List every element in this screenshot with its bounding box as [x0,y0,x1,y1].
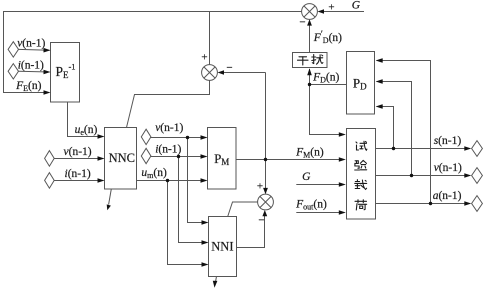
svg-text:FM(n): FM(n) [295,147,324,160]
svg-text:G: G [352,0,361,11]
svg-text:um(n): um(n) [141,167,167,180]
svg-text:FD(n): FD(n) [312,71,339,84]
svg-text:v(n-1): v(n-1) [17,38,45,50]
svg-text:+: + [328,1,334,13]
svg-text:i(n-1): i(n-1) [18,59,44,71]
svg-text:v(n-1): v(n-1) [434,162,462,174]
svg-text:ue(n): ue(n) [75,124,98,137]
svg-text:a(n-1): a(n-1) [433,190,462,202]
svg-text:−: − [258,215,264,227]
svg-text:G: G [302,171,311,183]
svg-text:NNI: NNI [211,239,233,253]
svg-text:NNC: NNC [109,151,135,165]
svg-text:+: + [201,52,207,64]
svg-text:v(n-1): v(n-1) [155,122,183,134]
svg-text:−: − [226,62,232,74]
svg-text:i(n-1): i(n-1) [155,144,181,156]
svg-text:−: − [299,17,305,29]
svg-text:FE(n): FE(n) [15,80,42,93]
svg-text:v(n-1): v(n-1) [64,146,92,158]
svg-text:s(n-1): s(n-1) [434,135,462,147]
svg-text:i(n-1): i(n-1) [65,168,91,180]
svg-text:+: + [257,181,263,193]
